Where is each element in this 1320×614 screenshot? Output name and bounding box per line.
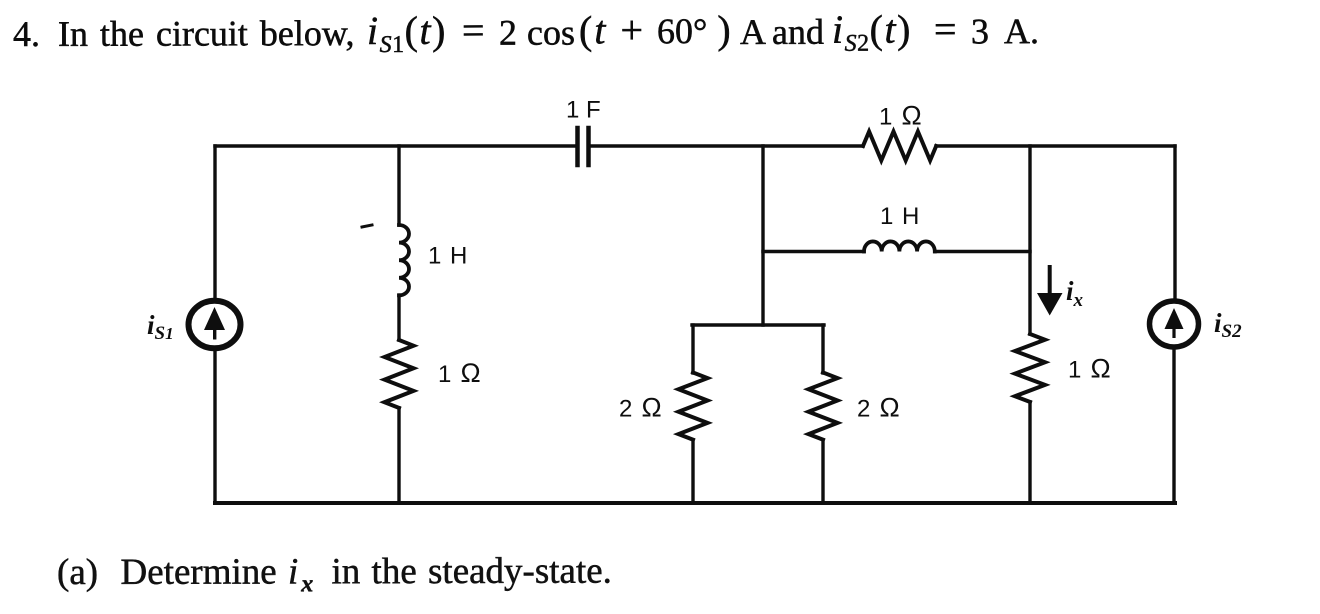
resistor R 1-ohm right zigzag bbox=[1015, 334, 1045, 402]
wire: left rail upper bbox=[213, 146, 216, 297]
wire: 2-ohm right branch upper lead bbox=[821, 325, 824, 373]
wire: top rail right segment bbox=[936, 144, 1175, 147]
wire: branch C upper (x=1030) bbox=[1028, 146, 1031, 334]
wire: branch C lower bbox=[1028, 402, 1031, 503]
part (a) text bbox=[57, 550, 612, 600]
wire: 2-ohm left branch upper lead bbox=[691, 325, 694, 373]
problem statement text bbox=[0, 0, 1320, 70]
wire: 1H horizontal left lead bbox=[763, 250, 864, 253]
resistor R top 1-ohm zigzag bbox=[863, 132, 936, 161]
current source iS2 arrow bbox=[1165, 308, 1184, 338]
svg-text:2 Ω: 2 Ω bbox=[857, 393, 900, 423]
svg-text:ix: ix bbox=[1066, 276, 1084, 311]
wire: top rail left segment (node to capacitor) bbox=[215, 144, 576, 147]
svg-text:1 H: 1 H bbox=[428, 243, 467, 270]
svg-text:1 Ω: 1 Ω bbox=[438, 358, 481, 388]
resistor R 1-ohm vertical (branch A) bbox=[385, 340, 414, 408]
wire: 2-ohm left branch lower lead bbox=[691, 440, 694, 503]
capacitor C 1F plates bbox=[578, 128, 589, 165]
wire: branch B vertical (x=763) bbox=[761, 146, 764, 325]
resistor R 2-ohm left zigzag bbox=[679, 373, 708, 440]
svg-text:iS2: iS2 bbox=[1214, 308, 1242, 342]
svg-text:1 Ω: 1 Ω bbox=[879, 101, 922, 131]
wire: bottom rail bbox=[215, 501, 1175, 505]
wire: left rail lower bbox=[213, 351, 216, 503]
resistor R 2-ohm right zigzag bbox=[809, 373, 838, 440]
inductor L 1H vertical (4 humps) bbox=[399, 225, 409, 295]
svg-text:iS1: iS1 bbox=[147, 310, 174, 344]
wire: top rail mid segment (capacitor to 1-ohm resistor) bbox=[590, 144, 863, 147]
current source iS1 circle bbox=[189, 301, 241, 349]
ix current arrow bbox=[1037, 265, 1063, 316]
svg-text:1 F: 1 F bbox=[566, 97, 601, 124]
wire: right rail lower bbox=[1172, 347, 1175, 503]
svg-text:2 Ω: 2 Ω bbox=[619, 393, 662, 423]
current source iS2 circle bbox=[1150, 301, 1199, 347]
scan speckle near inductor bbox=[362, 225, 372, 227]
wire: branch A top (x=399) bbox=[397, 146, 400, 225]
wire: 1H horizontal right lead bbox=[935, 250, 1030, 253]
inductor L 1H horizontal (4 humps) bbox=[864, 241, 935, 251]
wire: branch A bottom bbox=[397, 408, 400, 503]
wire: branch A middle bbox=[397, 295, 400, 340]
current source iS1 arrow bbox=[204, 307, 225, 340]
wire: right rail upper bbox=[1173, 146, 1176, 299]
wire: 2-ohm right branch lower lead bbox=[821, 440, 824, 503]
svg-text:1 H: 1 H bbox=[880, 203, 919, 230]
svg-text:1 Ω: 1 Ω bbox=[1068, 354, 1111, 384]
wire: parallel-pair top bar bbox=[692, 323, 824, 326]
